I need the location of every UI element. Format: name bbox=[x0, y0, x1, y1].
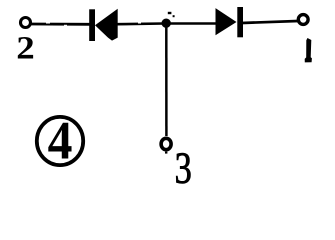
figure number circle bbox=[37, 117, 83, 165]
wire D1 to node bbox=[117, 22, 164, 25]
wire node to D2 bbox=[168, 22, 216, 24]
diode D1 cathode bar bbox=[89, 9, 95, 41]
terminal 1 bbox=[298, 15, 308, 25]
diode D2 cathode bar bbox=[237, 7, 243, 37]
wire nick (scan texture) bbox=[138, 23, 141, 24]
label 1 (drawn stroke) bbox=[305, 38, 312, 62]
svg-text:2: 2 bbox=[16, 29, 34, 66]
speck above node bbox=[168, 12, 172, 14]
wire nick (scan texture) bbox=[46, 22, 50, 23]
diode D2 triangle (points right) bbox=[216, 8, 237, 35]
wire terminal2 to D1 bbox=[31, 23, 90, 26]
wire D2 to terminal 1 bbox=[242, 21, 298, 23]
terminal 3 bbox=[161, 138, 171, 149]
nub below terminal 3 bbox=[165, 152, 167, 154]
diode D1 triangle (points left) bbox=[95, 9, 118, 41]
svg-text:4: 4 bbox=[48, 112, 73, 171]
node junction dot bbox=[162, 19, 171, 28]
speck above node 2 bbox=[173, 15, 175, 17]
wire nick (scan texture) bbox=[64, 25, 67, 26]
wire node to terminal 3 (vertical) bbox=[165, 26, 168, 136]
terminal 2 bbox=[21, 18, 31, 28]
svg-text:3: 3 bbox=[175, 143, 192, 189]
